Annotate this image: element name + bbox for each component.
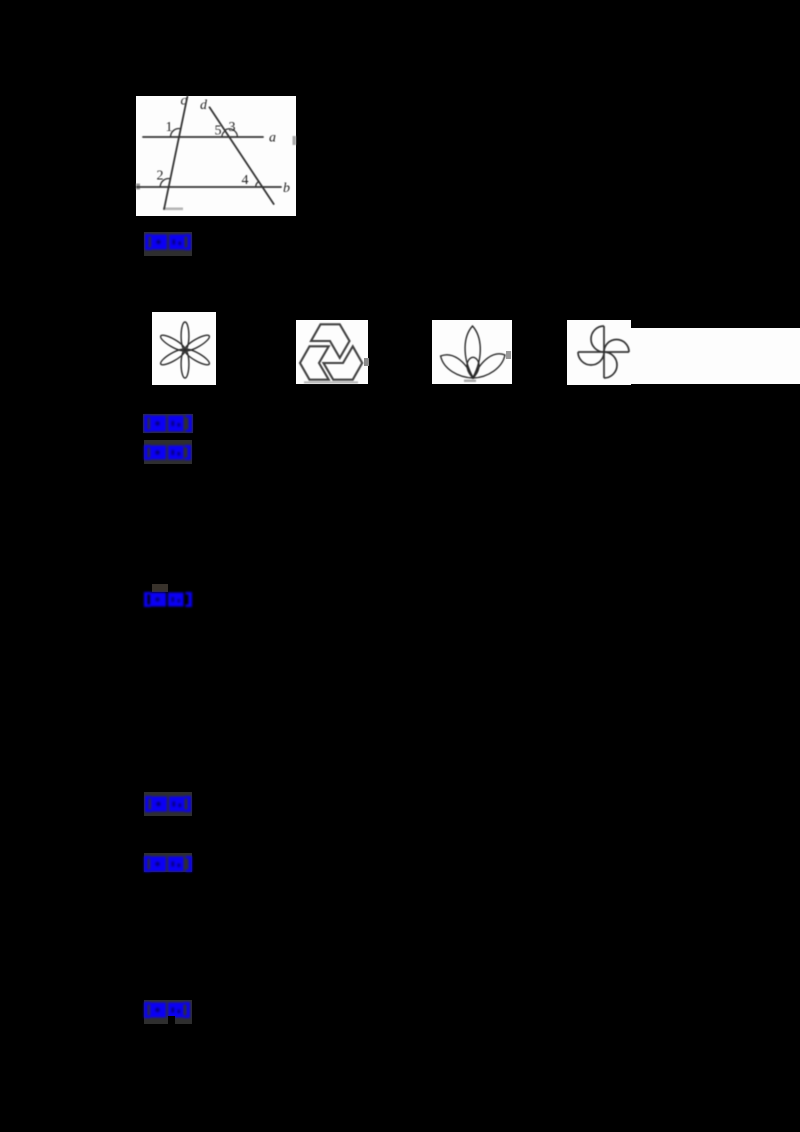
svg-text:a: a (269, 131, 276, 146)
svg-text:2: 2 (157, 169, 164, 184)
svg-text:c: c (181, 96, 188, 109)
svg-text:d: d (200, 98, 208, 113)
svg-text:4: 4 (242, 173, 249, 188)
svg-text:5: 5 (215, 124, 222, 139)
svg-text:1: 1 (166, 120, 173, 135)
svg-text:b: b (283, 181, 290, 196)
svg-text:3: 3 (229, 120, 236, 135)
